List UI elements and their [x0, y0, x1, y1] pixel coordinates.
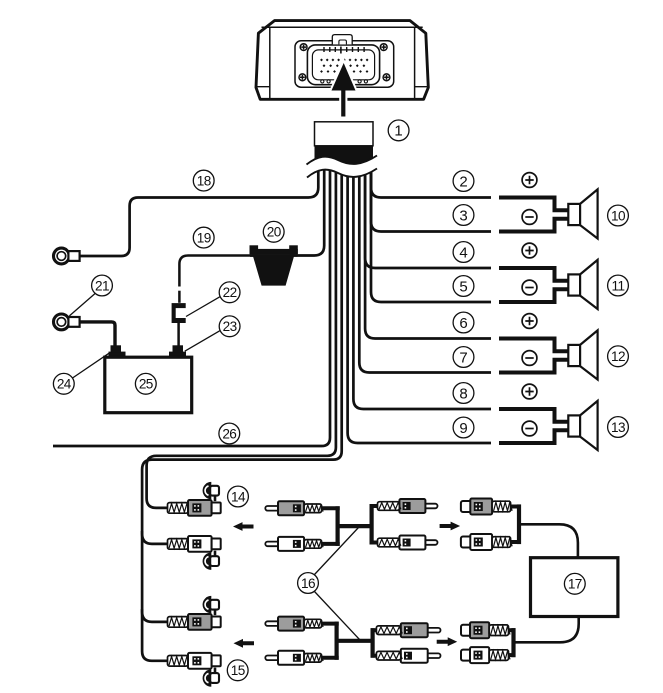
wire bracket jacks lower-right: [511, 628, 515, 657]
label 19: [193, 227, 214, 248]
svg-text:2: 2: [459, 173, 467, 190]
arrow right lower: [437, 637, 458, 646]
wire RCA branch to jack B: [142, 531, 168, 544]
plug gray lower facing right: [376, 623, 440, 637]
connector 20: [250, 245, 298, 285]
label 7: [453, 347, 474, 368]
wire bracket upper-left: [336, 506, 340, 546]
wire plug gray lower-left to bracket: [320, 622, 339, 626]
wire 4: [365, 157, 491, 268]
label 2: [453, 171, 474, 192]
wire 9: [348, 157, 491, 443]
leader line 21: [69, 294, 94, 316]
wire bracket jacks upper-right: [517, 504, 521, 544]
svg-text:26: 26: [222, 426, 236, 441]
wire plug gray upper-left to bracket: [320, 506, 340, 510]
wire plug white upper-left to bracket: [320, 542, 340, 546]
label 9: [453, 417, 474, 438]
wire RCA cord spine: [142, 157, 342, 661]
label 24: [53, 373, 74, 394]
wire bracket to plug white lower-right: [371, 654, 378, 658]
label 21: [92, 275, 113, 296]
label 13: [608, 417, 629, 438]
label 25: [135, 373, 156, 394]
wire bracket to plug gray lower-right: [371, 628, 378, 632]
plus polarity symbol: [522, 173, 537, 188]
socket pins: [320, 47, 368, 83]
svg-text:6: 6: [459, 315, 467, 332]
minus polarity symbol: [522, 280, 537, 295]
label 14: [228, 486, 249, 507]
cap for jack B: [203, 551, 219, 570]
screw top-left: [300, 44, 307, 51]
label 15: [227, 660, 248, 681]
plug white lower facing right: [376, 649, 440, 663]
leader line 16 to upper junction: [315, 528, 359, 575]
label 26: [219, 423, 240, 444]
label 12: [608, 346, 629, 367]
arrow left upper: [233, 522, 254, 531]
cap for jack D: [203, 668, 219, 687]
svg-text:21: 21: [95, 278, 109, 293]
svg-text:10: 10: [611, 208, 626, 223]
svg-text:24: 24: [57, 377, 72, 392]
plug gray upper facing right: [378, 499, 438, 513]
ring terminal upper: [54, 248, 80, 264]
wire 8: [353, 157, 491, 409]
speaker 12: [568, 330, 597, 379]
wire jack white upper-right to bracket: [509, 540, 521, 544]
wire ground to battery negative: [80, 322, 116, 346]
wire 3: [371, 157, 491, 232]
battery 25: [105, 357, 192, 413]
svg-text:5: 5: [459, 278, 467, 295]
wire junction upper: [338, 524, 372, 528]
wire speaker-negative lead: [499, 289, 568, 302]
plug white upper facing right: [378, 536, 438, 550]
screw bottom-left: [299, 74, 306, 81]
wire 6: [365, 157, 491, 339]
wire fuse to battery positive: [177, 323, 180, 346]
wire speaker-positive lead: [499, 409, 568, 422]
svg-text:25: 25: [139, 377, 153, 392]
label 1: [388, 120, 409, 141]
wire 7: [359, 157, 491, 373]
svg-text:9: 9: [459, 420, 467, 437]
jack D white: [168, 653, 221, 669]
svg-text:3: 3: [459, 207, 467, 224]
wire to amplifier top: [519, 524, 578, 557]
wire bracket to plug gray upper-right: [370, 504, 379, 508]
svg-text:13: 13: [611, 420, 625, 435]
plus polarity symbol: [522, 384, 537, 399]
wire jack white lower-right to bracket: [507, 653, 516, 657]
jack C gray (output 15): [168, 614, 221, 630]
wire speaker-positive lead: [499, 198, 568, 211]
leader line 23: [185, 331, 220, 351]
minus polarity symbol: [522, 210, 537, 225]
connector 1 black band: [315, 146, 374, 167]
fuse 22: [172, 303, 186, 323]
wire 2: [371, 157, 491, 198]
label 4: [453, 242, 474, 263]
label 17: [564, 573, 585, 594]
battery negative terminal: [109, 345, 126, 358]
plus polarity symbol: [522, 243, 537, 258]
wavy break gap: [307, 156, 378, 178]
svg-text:8: 8: [459, 385, 467, 402]
plug white upper facing left: [265, 537, 323, 551]
arrow left lower: [234, 639, 255, 648]
speaker 13: [568, 401, 597, 450]
svg-text:20: 20: [267, 225, 282, 240]
battery positive terminal: [169, 345, 186, 358]
arrow into head unit: [332, 63, 356, 117]
multipin socket: [307, 35, 379, 85]
label 5: [453, 276, 474, 297]
wire speaker-negative lead: [499, 219, 568, 232]
plug gray lower facing left: [265, 617, 323, 631]
svg-text:22: 22: [223, 285, 237, 300]
wire to amplifier bottom: [514, 617, 579, 643]
plug gray upper facing left: [265, 501, 323, 515]
jack B white: [168, 536, 221, 552]
amplifier 17: [531, 558, 618, 617]
wire speaker-negative lead: [499, 430, 568, 443]
plug white lower facing left: [265, 651, 323, 665]
wire speaker-positive lead: [499, 339, 568, 352]
wire junction lower: [337, 639, 373, 643]
svg-text:12: 12: [611, 349, 625, 364]
arrow right upper: [440, 522, 461, 531]
svg-text:4: 4: [459, 244, 467, 261]
screw top-right: [380, 44, 387, 51]
label 16: [298, 573, 319, 594]
label 8: [453, 383, 474, 404]
wire 26 ground lead: [53, 157, 330, 446]
minus polarity symbol: [522, 421, 537, 436]
cap for jack A: [203, 482, 219, 501]
svg-text:18: 18: [197, 173, 211, 188]
speaker 11: [568, 260, 597, 309]
wire jack gray lower-right to bracket: [507, 628, 516, 632]
wire bracket lower-right: [371, 628, 375, 658]
svg-text:7: 7: [459, 349, 467, 366]
svg-text:11: 11: [612, 278, 625, 293]
leader line 16 to lower junction: [315, 592, 360, 640]
svg-text:19: 19: [197, 230, 211, 245]
wire bracket upper-right: [370, 504, 374, 545]
svg-text:17: 17: [568, 577, 582, 592]
jack gray lower facing left: [461, 622, 510, 638]
wire jack gray upper-right to bracket: [509, 505, 521, 509]
label 18: [193, 170, 214, 191]
wire 18 accessory lead: [80, 157, 319, 256]
wire bracket lower-left: [335, 622, 339, 660]
wire RCA cord branch A: [147, 157, 336, 508]
minus polarity symbol: [522, 351, 537, 366]
wire RCA branch to jack C: [142, 609, 168, 622]
wire speaker-positive lead: [499, 268, 568, 281]
cap for jack C: [203, 596, 219, 615]
label 6: [453, 312, 474, 333]
connector 1 housing: [315, 122, 374, 146]
svg-text:14: 14: [231, 489, 246, 504]
label 11: [608, 275, 629, 296]
jack A gray (output 14): [168, 500, 221, 516]
wire plug white lower-left to bracket: [320, 656, 339, 660]
ring terminal lower: [54, 314, 80, 330]
label 22: [219, 282, 240, 303]
wire 19 battery lead: [250, 157, 324, 256]
head unit (rear view): [256, 21, 428, 100]
wire bracket to plug white upper-right: [370, 541, 379, 545]
wire speaker-negative lead: [499, 360, 568, 373]
jack white lower facing left: [461, 647, 510, 663]
connector mounting plate: [295, 41, 394, 87]
leader line 22: [186, 297, 220, 317]
screw bottom-right: [383, 74, 390, 81]
label 20: [263, 221, 284, 242]
svg-text:1: 1: [394, 123, 402, 140]
label 23: [219, 316, 240, 337]
jack white upper facing left: [461, 534, 512, 550]
svg-text:23: 23: [223, 319, 237, 334]
label 3: [453, 205, 474, 226]
svg-text:16: 16: [301, 576, 315, 591]
wire 5: [371, 157, 491, 302]
svg-text:15: 15: [231, 663, 245, 678]
jack gray upper facing left: [461, 499, 512, 515]
leader line 24: [73, 353, 110, 378]
plus polarity symbol: [522, 314, 537, 329]
label 10: [608, 205, 629, 226]
speaker 10: [568, 189, 597, 238]
